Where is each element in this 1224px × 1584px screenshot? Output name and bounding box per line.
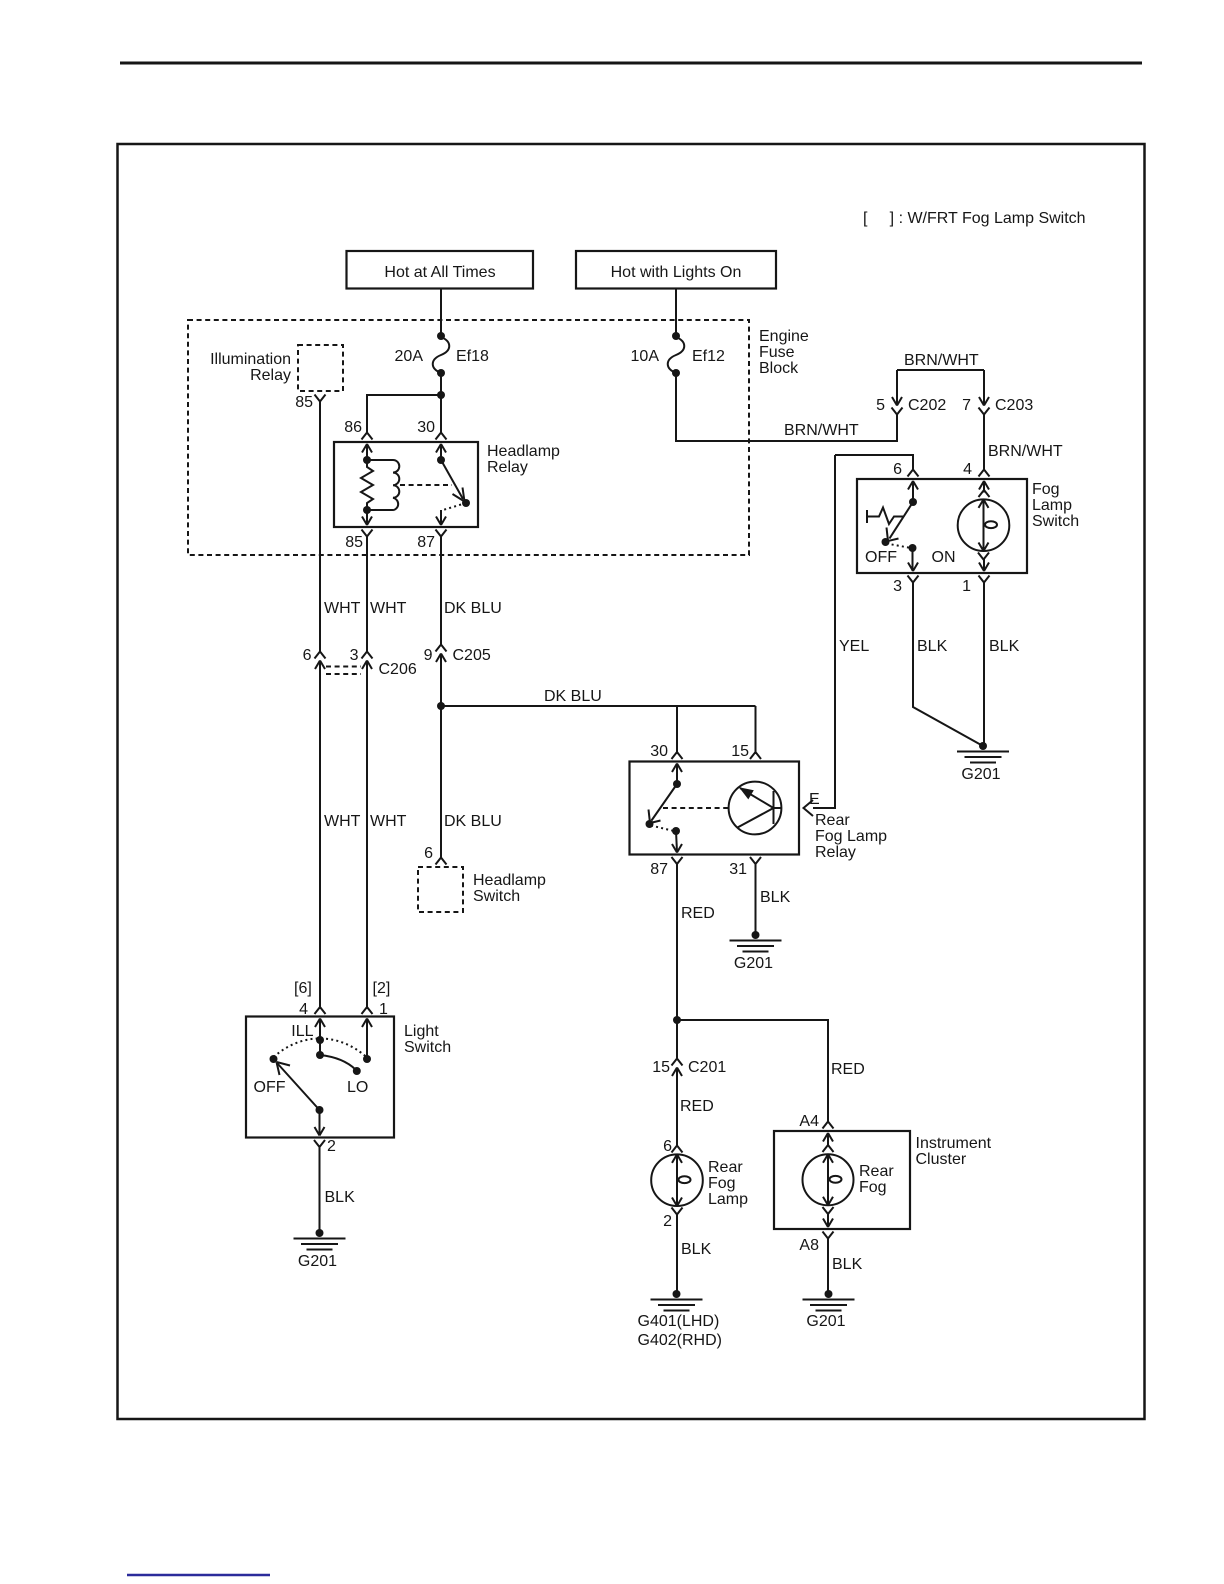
junction node DK BLU [437, 702, 445, 710]
headlamp switch pin 6 [424, 845, 446, 865]
svg-text:Block: Block [759, 360, 799, 377]
svg-text:87: 87 [650, 861, 668, 878]
instrument cluster box [774, 1131, 910, 1229]
pin 3 [893, 563, 918, 596]
svg-text:BLK: BLK [325, 1189, 356, 1206]
light switch contacts [270, 1019, 372, 1064]
svg-text:30: 30 [417, 419, 435, 436]
C206 dashed pairing lines [326, 667, 361, 675]
illumination relay dashed box [298, 345, 343, 391]
svg-text:OFF: OFF [865, 549, 897, 566]
rear fog lamp relay label [815, 812, 887, 861]
svg-text:ON: ON [932, 549, 956, 566]
svg-text:DK BLU: DK BLU [444, 813, 502, 830]
wire WHT: C206 to light switch pin 4 [320, 661, 361, 1010]
svg-text:Relay: Relay [250, 367, 291, 384]
svg-text:Fog: Fog [708, 1175, 736, 1192]
wire WHT: illumination relay 85 to C206 [320, 401, 361, 652]
wire RED: C201 to rear fog lamp [677, 1068, 714, 1148]
svg-text:G401(LHD): G401(LHD) [638, 1313, 720, 1330]
relay contact dotted link [651, 826, 674, 832]
pin 15 relay [731, 743, 761, 760]
ground G201 (rear fog lamp relay) [752, 931, 760, 939]
svg-text:Fog: Fog [1032, 481, 1060, 498]
fog lamp switch label [1032, 481, 1079, 530]
pin A4 [799, 1113, 833, 1142]
svg-text:WHT: WHT [370, 813, 407, 830]
rear fog lamp pin 2 [663, 1208, 682, 1231]
svg-text:C201: C201 [688, 1059, 726, 1076]
svg-text:G201: G201 [734, 955, 773, 972]
pin E connector [804, 791, 820, 816]
wire: Hot with Lights On to fuse Ef12 [675, 289, 677, 337]
svg-text:6: 6 [424, 845, 433, 862]
svg-text:Relay: Relay [815, 844, 856, 861]
svg-text:ILL: ILL [291, 1023, 313, 1040]
svg-text:Ef12: Ef12 [692, 348, 725, 365]
svg-text:G402(RHD): G402(RHD) [638, 1332, 722, 1349]
svg-text:Hot at All Times: Hot at All Times [384, 264, 495, 281]
pin 87 bottom [417, 510, 446, 551]
svg-text:2: 2 [663, 1213, 672, 1230]
pin A8 [799, 1219, 833, 1255]
svg-text:Instrument: Instrument [916, 1135, 992, 1152]
svg-text:31: 31 [729, 861, 747, 878]
light switch label [404, 1023, 451, 1056]
wire WHT: headlamp relay 85 to C206 [367, 536, 407, 652]
svg-text:RED: RED [831, 1061, 865, 1078]
svg-text:Rear: Rear [859, 1163, 894, 1180]
light switch arm [277, 1062, 324, 1114]
node Hot at All Times [347, 251, 534, 289]
wire BLK: pin 3 to ground [913, 582, 983, 747]
svg-text:WHT: WHT [370, 600, 407, 617]
svg-text:LO: LO [347, 1079, 368, 1096]
svg-text:Cluster: Cluster [916, 1151, 967, 1168]
junction node RED [673, 1016, 681, 1024]
wire to pin 2 [319, 1110, 321, 1136]
svg-text:Fog: Fog [859, 1179, 887, 1196]
connector C203 pin 7 [962, 370, 1033, 415]
pin 31 relay [729, 857, 761, 878]
svg-text:2: 2 [327, 1138, 336, 1155]
pin 87 relay [650, 844, 682, 878]
svg-text:Relay: Relay [487, 459, 528, 476]
svg-text:20A: 20A [395, 348, 424, 365]
connector C201 pin 15 [652, 1059, 726, 1077]
svg-text:30: 30 [650, 743, 668, 760]
svg-text:1: 1 [379, 1001, 388, 1018]
svg-text:BLK: BLK [917, 638, 948, 655]
wire RED: relay 87 down to junction [677, 863, 715, 1058]
svg-text:BRN/WHT: BRN/WHT [904, 352, 979, 369]
fog switch dotted link OFF-ON [887, 544, 912, 549]
relay coil [361, 444, 399, 514]
relay control dashed line [663, 807, 729, 809]
svg-text:5: 5 [876, 397, 885, 414]
svg-text:G201: G201 [806, 1313, 845, 1330]
pin 30 relay [650, 743, 682, 772]
wire DK BLU: headlamp relay 87 to C205 [441, 536, 502, 646]
wire BLK: A8 to ground [828, 1238, 863, 1295]
rear fog indicator label [859, 1163, 894, 1196]
svg-text:G201: G201 [298, 1253, 337, 1270]
svg-text:BLK: BLK [989, 638, 1020, 655]
svg-text:87: 87 [417, 534, 435, 551]
svg-text:BRN/WHT: BRN/WHT [988, 443, 1063, 460]
fuse Ef12 10A [631, 332, 725, 377]
connector C206 pin 3 [350, 647, 417, 678]
fog switch contact [882, 481, 918, 552]
svg-text:Lamp: Lamp [708, 1191, 748, 1208]
relay contact arm [437, 444, 470, 507]
pin 4 [299, 1001, 325, 1027]
connector C205 pin 9 [424, 645, 491, 665]
svg-text:A8: A8 [799, 1237, 819, 1254]
top rule [120, 62, 1142, 65]
wire BRN/WHT: Ef12 to C202 [676, 373, 897, 441]
instrument cluster label [916, 1135, 992, 1168]
ground G201 (fog lamp switch) [979, 742, 987, 750]
svg-text:DK BLU: DK BLU [544, 688, 602, 705]
cluster lamp connector top [823, 1133, 834, 1152]
fog switch detent [867, 508, 903, 525]
svg-text:Headlamp: Headlamp [473, 872, 546, 889]
svg-text:Rear: Rear [815, 812, 850, 829]
bottom blue rule [127, 1574, 270, 1577]
pin 4 [963, 461, 989, 490]
wire: Hot at All Times to fuse Ef18 [440, 289, 442, 337]
engine fuse block label [759, 328, 809, 377]
wire BRN/WHT: C203 to fog lamp switch pin 4 [984, 413, 1063, 470]
wire YEL: pin 6 branch to relay pin E [813, 455, 869, 808]
pin 85 bottom [345, 510, 372, 551]
illumination relay label [210, 351, 291, 384]
headlamp switch dashed box [418, 867, 463, 912]
svg-text:Hot with Lights On: Hot with Lights On [611, 264, 742, 281]
svg-text:Headlamp: Headlamp [487, 443, 560, 460]
svg-text:6: 6 [893, 461, 902, 478]
wire 87 inside relay [676, 831, 677, 852]
svg-text:10A: 10A [631, 348, 660, 365]
dotted selector arc [274, 1039, 367, 1058]
svg-text:[6]: [6] [294, 980, 312, 997]
rear fog lamp relay box [630, 762, 800, 855]
svg-text:9: 9 [424, 647, 433, 664]
svg-text:A4: A4 [799, 1113, 819, 1130]
rear fog lamp pin 6 [663, 1138, 682, 1155]
rear fog indicator bulb [803, 1154, 854, 1205]
headlamp relay label [487, 443, 560, 476]
pin 1 [962, 563, 989, 596]
svg-text:4: 4 [963, 461, 972, 478]
wire RED: junction to instrument cluster A4 [677, 1020, 865, 1122]
svg-text:Engine: Engine [759, 328, 809, 345]
svg-text:WHT: WHT [324, 813, 361, 830]
fuse Ef18 20A [395, 332, 489, 377]
connector C202 pin 5 [876, 370, 946, 415]
svg-text:6: 6 [303, 647, 312, 664]
svg-text:BLK: BLK [760, 889, 791, 906]
headlamp switch label [473, 872, 546, 905]
solid LO arc [320, 1055, 361, 1075]
svg-text:C205: C205 [453, 647, 491, 664]
ground G401/G402 [673, 1290, 681, 1298]
svg-text:Switch: Switch [404, 1039, 451, 1056]
wire DK BLU: C205 down to headlamp switch [441, 654, 502, 860]
svg-text:C203: C203 [995, 397, 1033, 414]
relay electronic coil circle [729, 782, 782, 835]
pin 30 [417, 419, 446, 453]
svg-text:Switch: Switch [1032, 513, 1079, 530]
svg-text:15: 15 [652, 1059, 670, 1076]
fog switch lamp [958, 481, 1010, 571]
ground G201 (instrument cluster) [825, 1290, 833, 1298]
light switch box [246, 1017, 394, 1138]
connector C206 pin 6 [303, 647, 326, 669]
svg-text:DK BLU: DK BLU [444, 600, 502, 617]
relay coil-contact dashed link [400, 484, 452, 486]
svg-text:Switch: Switch [473, 888, 520, 905]
svg-text:C206: C206 [379, 661, 417, 678]
wire: Ef18 to headlamp relay pins 30/86 [367, 373, 441, 434]
wire WHT: C206 to light switch pin 1 [367, 661, 407, 1010]
svg-text:Lamp: Lamp [1032, 497, 1072, 514]
wire BLK: light switch to ground [320, 1146, 356, 1233]
wire ON contact to pin 3 [912, 548, 914, 571]
svg-text:Ef18: Ef18 [456, 348, 489, 365]
svg-text:RED: RED [680, 1098, 714, 1115]
svg-text:3: 3 [350, 647, 359, 664]
svg-text:E: E [809, 791, 820, 808]
pin 86 [344, 419, 372, 453]
ground G201 (light switch) [316, 1229, 324, 1237]
wire: YEL branch top to pin 6 [835, 455, 913, 470]
svg-text:Light: Light [404, 1023, 439, 1040]
svg-text:C202: C202 [908, 397, 946, 414]
cluster lamp connector bottom [823, 1207, 834, 1227]
svg-text:85: 85 [295, 394, 313, 411]
rear fog lamp bulb [651, 1154, 703, 1206]
svg-text:85: 85 [345, 534, 363, 551]
svg-text:RED: RED [681, 905, 715, 922]
rear fog lamp label [708, 1159, 748, 1208]
headlamp relay box [334, 442, 478, 527]
svg-text:WHT: WHT [324, 600, 361, 617]
engine fuse block dashed box [188, 320, 749, 555]
pin 1 [362, 1001, 389, 1027]
svg-text:OFF: OFF [254, 1079, 286, 1096]
wire BLK: pin 1 to ground [984, 582, 1020, 747]
outer frame [118, 144, 1145, 1419]
svg-text:Rear: Rear [708, 1159, 743, 1176]
pin 6 [893, 461, 918, 490]
svg-text:YEL: YEL [839, 638, 869, 655]
svg-text:Illumination: Illumination [210, 351, 291, 368]
svg-text:6: 6 [663, 1138, 672, 1155]
svg-text:15: 15 [731, 743, 749, 760]
svg-text:4: 4 [299, 1001, 308, 1018]
wire BRN/WHT: C202 to C203 [897, 352, 984, 370]
svg-text:BLK: BLK [832, 1256, 863, 1273]
node Hot with Lights On [576, 251, 776, 289]
relay contact arm 30-87 [646, 764, 682, 836]
svg-text:Fog Lamp: Fog Lamp [815, 828, 887, 845]
svg-text:[2]: [2] [373, 980, 391, 997]
wire BLK: lamp to ground [677, 1214, 712, 1295]
fog lamp switch box [857, 479, 1027, 573]
svg-text:[ ] : W/FRT Fog Lamp Switc: [ ] : W/FRT Fog Lamp Switch [863, 210, 1086, 227]
pin 85 of illumination relay [295, 394, 325, 411]
relay contact dotted link [443, 503, 466, 510]
svg-text:3: 3 [893, 578, 902, 595]
svg-text:86: 86 [344, 419, 362, 436]
svg-text:BRN/WHT: BRN/WHT [784, 422, 859, 439]
svg-text:1: 1 [962, 578, 971, 595]
svg-text:Fuse: Fuse [759, 344, 795, 361]
wire BLK: relay 31 to ground [756, 863, 791, 935]
svg-text:BLK: BLK [681, 1241, 712, 1258]
pin 2 [314, 1127, 336, 1155]
wire DK BLU: junction to rear fog lamp relay pins 30/15 [441, 688, 756, 754]
junction node [437, 391, 445, 399]
svg-text:7: 7 [962, 397, 971, 414]
svg-text:G201: G201 [961, 766, 1000, 783]
